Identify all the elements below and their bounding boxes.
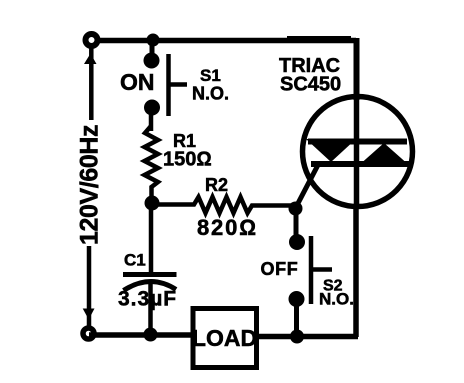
wire right vertical lower (353, 205, 359, 337)
source arrow down (83, 309, 95, 320)
wire C1 top (149, 201, 154, 274)
svg-text:820Ω: 820Ω (197, 215, 258, 240)
wire S1 to R1 (149, 107, 154, 131)
triac U1 circle (303, 97, 413, 207)
svg-text:3.3µF: 3.3µF (118, 288, 177, 311)
wire left source lower (87, 246, 92, 327)
wire right vertical upper (354, 38, 360, 100)
source arrow up (84, 54, 97, 65)
resistor R1 (145, 126, 159, 202)
switch S2 bottom contact (289, 291, 305, 307)
switch S1 bottom contact (144, 100, 160, 116)
resistor R2 (152, 197, 295, 213)
terminal top-left (86, 34, 98, 46)
wire S2 to bottom (294, 299, 299, 336)
svg-text:R2: R2 (205, 175, 228, 195)
triac right triangle (358, 143, 410, 166)
triac top bar (308, 139, 407, 145)
capacitor C1 plate bottom curved (124, 281, 177, 290)
switch S2 top contact (289, 234, 305, 250)
node top junction (147, 34, 160, 47)
wire C1 bottom (148, 284, 153, 334)
svg-text:SC450: SC450 (280, 74, 341, 96)
terminal bottom-left (83, 328, 94, 339)
wire left source upper (89, 47, 94, 120)
svg-text:ON: ON (120, 69, 155, 95)
svg-text:LOAD: LOAD (192, 325, 257, 351)
svg-text:150Ω: 150Ω (163, 149, 212, 171)
load box (193, 309, 257, 368)
triac bottom bar (311, 161, 411, 167)
capacitor C1 plate top (123, 272, 177, 277)
wire top horizontal (100, 38, 356, 44)
svg-text:C1: C1 (124, 251, 146, 270)
node bottom right junction (290, 330, 304, 344)
svg-text:S1: S1 (200, 66, 221, 85)
node R1 R2 C1 junction (145, 196, 160, 211)
wire bottom right (257, 334, 358, 340)
wire junction to S1 (150, 40, 155, 60)
switch S1 top contact (144, 53, 160, 69)
svg-text:N.O.: N.O. (319, 290, 354, 309)
wire triac main vertical (354, 96, 360, 207)
node C1 bottom junction (144, 328, 158, 342)
switch S1 bar (169, 54, 188, 116)
wire bottom left (89, 332, 192, 338)
svg-text:120V/60Hz: 120V/60Hz (76, 125, 104, 245)
wire junction to S2 (294, 208, 299, 242)
switch S2 bar (311, 236, 332, 304)
node R2 gate junction (289, 202, 303, 216)
triac left triangle (306, 139, 356, 162)
svg-text:N.O.: N.O. (192, 84, 229, 104)
wire triac gate diagonal (295, 163, 320, 210)
wire top doubled scan artifact (287, 36, 351, 39)
svg-text:OFF: OFF (261, 259, 299, 279)
